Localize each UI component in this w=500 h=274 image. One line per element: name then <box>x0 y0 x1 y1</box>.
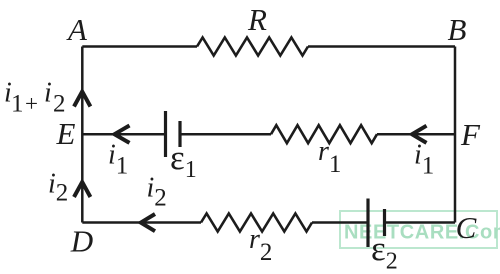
wire: top side A-B <box>82 45 455 48</box>
wire: right side B-F-C <box>454 47 457 223</box>
battery E1 long plate <box>164 111 167 157</box>
svg-text:E: E <box>56 116 76 151</box>
battery E2 long plate <box>366 199 369 248</box>
wire: middle battery to r1 <box>180 133 271 136</box>
svg-text:B: B <box>448 12 467 47</box>
svg-text:A: A <box>66 12 88 47</box>
wire: middle r1 to F <box>377 133 455 136</box>
wire: bottom battery to C <box>385 221 456 224</box>
resistor r2 <box>201 214 312 232</box>
battery E1 short plate <box>178 121 181 147</box>
resistor r1 <box>271 125 377 143</box>
wire: bottom D to r2 <box>82 221 201 224</box>
current arrow up (i1+i2) on left wire <box>74 92 90 107</box>
wire: left side A-E-D <box>81 47 84 223</box>
current arrow left (i1) near F <box>412 126 427 143</box>
resistor R <box>197 38 308 56</box>
svg-text:D: D <box>70 223 93 258</box>
current arrow left (i2) on bottom wire <box>141 214 155 231</box>
svg-text:C: C <box>456 210 477 245</box>
svg-text:F: F <box>460 117 481 152</box>
current arrow up (i2) on left wire <box>74 182 90 197</box>
svg-text:R: R <box>247 2 267 37</box>
current arrow left (i1) near E <box>115 126 130 143</box>
watermark <box>340 211 500 248</box>
wire: middle E to battery <box>82 133 165 136</box>
wire: bottom r2 to battery <box>312 221 368 224</box>
battery E2 short plate <box>383 209 386 236</box>
